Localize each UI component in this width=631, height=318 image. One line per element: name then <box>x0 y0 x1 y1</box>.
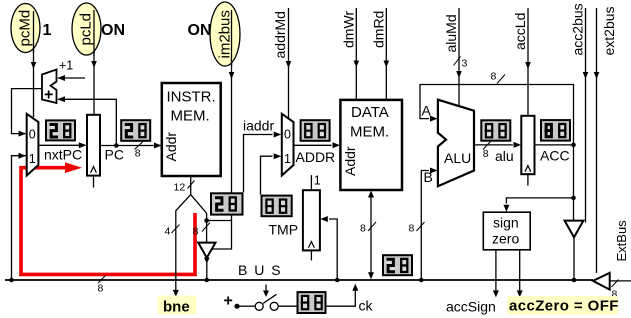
mux: ADDR source mux <box>282 114 294 176</box>
label: 8 bits bus left <box>98 276 106 284</box>
clock marker TMP <box>308 242 314 248</box>
node: PC out / incrementer branch <box>114 143 119 148</box>
wire: ACC clock stub <box>527 174 529 185</box>
red path arrowhead into PC <box>65 162 82 173</box>
svg-text:1: 1 <box>29 152 36 166</box>
display: immediate value 28 <box>211 193 243 214</box>
svg-text:B: B <box>424 169 433 185</box>
wire: PC clock stub <box>93 176 95 188</box>
wire: ALU B input from bus <box>421 171 429 281</box>
label: 3 bits aluMd <box>454 57 461 66</box>
svg-text:alu: alu <box>495 148 514 164</box>
wire: im2bus tri-state output to bus <box>206 258 208 280</box>
tri-state buffer acc2bus <box>565 221 584 238</box>
svg-text:1: 1 <box>314 174 321 188</box>
label: 8 bits alu out <box>483 142 491 150</box>
arrowhead iaddr into ADDR mux <box>274 132 282 138</box>
wire: DATA MEM data port to bus (bidirectional) <box>370 196 372 273</box>
arrowhead im2bus <box>229 72 235 79</box>
svg-text:ck: ck <box>359 298 374 314</box>
svg-text:ON: ON <box>101 22 125 39</box>
svg-text:+: + <box>44 87 53 104</box>
wire: TMP load stub with constant 1 <box>310 175 312 190</box>
svg-text:sign: sign <box>493 215 519 231</box>
svg-text:0: 0 <box>284 128 291 142</box>
arrowhead ext2bus <box>594 72 600 79</box>
display: data mem value 28 <box>383 255 412 275</box>
wire: external bus stub right of driver <box>610 280 631 282</box>
svg-text:nxtPC: nxtPC <box>44 147 82 163</box>
memory DATA MEM <box>340 100 402 190</box>
svg-text:ExtBus: ExtBus <box>614 220 629 262</box>
wire: pcLd line over oval <box>93 10 95 55</box>
node: ACC out / feedback <box>571 143 576 148</box>
display: ACC value <box>541 120 570 141</box>
svg-text:accSign: accSign <box>446 299 496 315</box>
wire: switch lever <box>263 294 276 303</box>
svg-text:Addr: Addr <box>163 132 179 162</box>
wire: addrMd control line <box>288 8 290 119</box>
arrowhead DATA MEM port up <box>368 191 374 198</box>
svg-text:MEM.: MEM. <box>171 108 210 125</box>
wire: ACC register output <box>535 144 574 146</box>
label: bne highlighted <box>158 296 197 315</box>
arrowhead accLd <box>525 62 531 69</box>
tri-state buffer im2bus <box>198 243 215 258</box>
wire: red highlighted active path (bus -> PC mux) <box>21 168 195 275</box>
wire: immediate display tap <box>207 220 232 222</box>
wire: iaddr to ADDR mux input 0 <box>244 135 273 193</box>
svg-text:pcLd: pcLd <box>78 13 95 46</box>
wire: accZero output <box>519 250 521 291</box>
arrowhead ALU B input <box>430 168 438 174</box>
register TMP <box>303 190 320 250</box>
svg-text:12: 12 <box>174 182 186 194</box>
wire: acc2bus control line <box>585 8 587 223</box>
arrowhead pcLd <box>91 61 97 68</box>
arrowhead pcMd <box>31 62 37 69</box>
arrowhead TMP into ADDR mux <box>274 153 282 159</box>
svg-text:PC: PC <box>105 147 124 163</box>
arrowhead ADDR into DATA MEM <box>333 142 341 148</box>
arrowhead addrMd <box>286 61 292 68</box>
svg-text:1: 1 <box>284 152 291 166</box>
node: ACC / sign zero branch <box>571 196 576 201</box>
svg-text:1: 1 <box>43 22 52 39</box>
wire: switch to clock display <box>278 305 296 307</box>
arrowhead PC mux input 1 <box>19 153 27 159</box>
arrowhead ALU A input <box>430 116 438 122</box>
svg-text:accLd: accLd <box>512 13 528 50</box>
svg-text:8: 8 <box>360 223 366 235</box>
wire: branch to sign-zero detector <box>506 198 573 204</box>
display: nxtPC value 28 <box>46 120 75 140</box>
svg-text:dmRd: dmRd <box>371 11 387 48</box>
wire: ACC value down to acc2bus tri-state <box>573 145 575 220</box>
svg-text:8: 8 <box>98 283 104 295</box>
register ACC <box>521 116 534 174</box>
wire: dmWr control line <box>355 8 357 100</box>
control oval im2bus <box>210 2 240 66</box>
display: ADDR value <box>301 120 330 141</box>
svg-text:Addr: Addr <box>342 146 358 176</box>
svg-text:8: 8 <box>193 226 199 238</box>
wire: 4-bit branch field down to bne <box>176 195 191 291</box>
arrowhead DATA MEM port down <box>368 272 374 279</box>
wire: dmRd control line <box>385 8 387 100</box>
svg-text:dmWr: dmWr <box>341 11 357 48</box>
clock: switch contact left <box>255 302 263 310</box>
clock marker PC <box>91 167 97 173</box>
svg-text:accZero = OFF: accZero = OFF <box>509 298 619 315</box>
arrowhead into sign zero <box>503 205 509 212</box>
wire: bus feedback up to PC mux input 1 <box>12 156 26 280</box>
wire: aluMd control line <box>458 8 460 107</box>
svg-text:MEM.: MEM. <box>350 124 389 141</box>
wire: PC mux output (nxtPC) to PC register <box>38 144 85 146</box>
node: immediate / display tap <box>204 218 209 223</box>
wire: acc2bus tri-state output to bus <box>573 237 575 280</box>
control oval pcMd <box>11 4 40 53</box>
arrowhead acc2bus <box>583 72 589 79</box>
svg-text:TMP: TMP <box>269 222 299 238</box>
sign zero detector <box>483 212 530 250</box>
svg-text:aluMd: aluMd <box>443 14 459 52</box>
svg-text:ACC: ACC <box>540 148 570 164</box>
arrowhead dmWr <box>354 61 360 68</box>
wire: ext2bus control line <box>596 8 598 273</box>
wire: pcLd control line <box>93 13 95 115</box>
wire: TMP value to ADDR mux input 1 <box>261 156 273 194</box>
wire: PC out up-branch to incrementer input <box>58 99 116 145</box>
node: bus / PC mux 1 <box>9 278 14 283</box>
display: TMP value <box>262 196 292 217</box>
mux: PC source mux <box>27 114 39 176</box>
tri-state buffer ext2bus driver <box>593 273 610 290</box>
display: clock counter <box>298 292 326 313</box>
svg-text:4: 4 <box>165 226 171 238</box>
svg-text:8: 8 <box>135 148 141 160</box>
wire: manual step arrow line <box>265 285 267 292</box>
wire: clock display to ck <box>327 290 356 306</box>
wire: clock source to switch <box>240 305 256 307</box>
incrementer +1 adder <box>42 70 57 104</box>
label: 8 bits PC out <box>135 142 144 150</box>
arrowhead PC mux input 0 <box>19 131 27 137</box>
wire: accLd control line <box>527 8 529 116</box>
arrowhead accZero <box>517 290 523 297</box>
node: ALU B on bus <box>419 278 424 283</box>
node: im2bus tri-state on bus <box>205 278 210 283</box>
arrowhead manual step <box>263 291 269 298</box>
svg-text:ADDR: ADDR <box>296 149 336 165</box>
arrowhead accSign <box>493 290 499 297</box>
svg-text:0: 0 <box>29 128 36 142</box>
arrowhead nxtPC into PC <box>79 142 87 148</box>
svg-text:addrMd: addrMd <box>272 11 288 58</box>
svg-text:DATA: DATA <box>351 104 389 121</box>
memory INSTR MEM <box>162 83 221 176</box>
arrowhead ALU out into ACC <box>514 142 522 148</box>
wire: INSTR MEM output 12-bit down to fork <box>190 176 192 195</box>
alu U1 <box>438 100 474 187</box>
svg-text:+: + <box>224 293 233 310</box>
wire: ADDR mux output to DATA MEM Addr <box>294 144 332 146</box>
svg-text:zero: zero <box>492 231 519 247</box>
svg-text:iaddr: iaddr <box>243 118 274 134</box>
svg-text:ext2bus: ext2bus <box>601 6 617 55</box>
wire: +1 constant input stub <box>58 77 85 79</box>
arrowhead incrementer B input <box>58 96 66 102</box>
wire: 8-bit immediate branch to tri-state <box>191 195 207 243</box>
svg-text:bne: bne <box>163 299 190 316</box>
svg-text:INSTR.: INSTR. <box>167 89 216 106</box>
arrowhead im2bus tri-state to bus <box>204 258 210 264</box>
bus: main system bus <box>5 279 593 281</box>
clock: switch contact right <box>270 302 278 310</box>
wire: pcMd control line <box>33 12 35 117</box>
wire: ACC feedback to ALU A input <box>420 85 574 145</box>
clock marker ACC <box>525 166 531 172</box>
wire: TMP clock stub <box>310 250 312 260</box>
wire: accSign output <box>495 250 497 291</box>
wire: TMP input from bus <box>329 219 337 280</box>
wire: pcMd line over oval <box>33 11 35 52</box>
clock: terminal dot <box>234 304 239 309</box>
wire: im2bus control line down to tri-state enable <box>213 20 232 249</box>
svg-text:ON: ON <box>188 22 212 39</box>
register PC <box>87 115 100 176</box>
wire: incrementer output to PC mux input 0 <box>12 89 43 134</box>
wire: ALU output to ACC register <box>474 144 513 146</box>
node: TMP input on bus <box>335 278 340 283</box>
svg-text:8: 8 <box>491 71 497 83</box>
svg-text:B U S: B U S <box>238 262 282 278</box>
arrowhead PC out into INSTR MEM <box>154 143 162 149</box>
svg-text:8: 8 <box>483 148 489 160</box>
label: 8 bits ext bus <box>612 280 619 288</box>
svg-text:3: 3 <box>462 58 468 70</box>
svg-text:+1: +1 <box>59 59 73 73</box>
arrowhead aluMd <box>456 71 462 78</box>
arrowhead +1 constant input <box>58 75 66 81</box>
svg-text:pcMd: pcMd <box>17 10 34 47</box>
label: accZero = OFF highlighted <box>507 296 618 315</box>
arrowhead ck up <box>352 284 358 291</box>
svg-text:acc2bus: acc2bus <box>570 3 586 55</box>
control oval pcLd <box>72 3 101 55</box>
display: alu value <box>481 120 510 140</box>
wire: im2bus line over oval <box>231 10 233 66</box>
wire: PC register output to INSTR MEM Addr <box>100 145 161 147</box>
arrowhead 4-bit to bne <box>173 290 179 297</box>
arrowhead dmRd <box>384 61 390 68</box>
arrowhead TMP input <box>320 216 328 222</box>
node: acc2bus on bus <box>572 278 577 283</box>
display: PC value 28 <box>121 120 150 141</box>
svg-text:A: A <box>422 103 432 119</box>
svg-text:8: 8 <box>409 223 415 235</box>
svg-text:ALU: ALU <box>444 150 471 166</box>
